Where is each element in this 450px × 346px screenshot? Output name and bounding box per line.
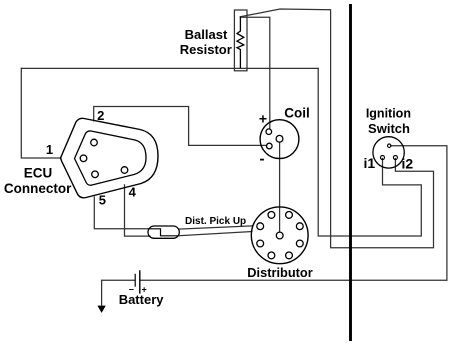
wire pickup to distributor lower <box>179 232 252 236</box>
svg-text:Ignition: Ignition <box>366 107 411 121</box>
svg-text:Resistor: Resistor <box>180 42 232 57</box>
ECU pin 1 circle <box>80 155 87 162</box>
switch i1 pin <box>381 156 385 160</box>
ECU pin 4 circle <box>121 167 128 174</box>
svg-text:Distributor: Distributor <box>247 265 312 280</box>
svg-text:i2: i2 <box>402 155 414 171</box>
pickup step line <box>150 229 178 236</box>
wire ballast top diagonal to i2 net <box>240 9 433 248</box>
svg-text:-: - <box>260 151 265 168</box>
svg-text:Ballast: Ballast <box>185 27 228 42</box>
wire switch top pin to battery plus <box>140 146 447 280</box>
ballast resistor R box <box>234 10 247 71</box>
ECU connector outer shell <box>61 118 159 197</box>
wire left vertical to pin1 <box>21 68 61 158</box>
ECU connector inner shell <box>75 131 147 185</box>
svg-text:Switch: Switch <box>368 121 410 136</box>
svg-text:2: 2 <box>97 108 104 123</box>
coil minus terminal <box>267 143 273 149</box>
resistor zigzag element <box>237 17 244 69</box>
distributor center terminal <box>276 232 283 239</box>
distributor circle <box>251 207 308 264</box>
switch top pin <box>388 144 391 147</box>
ECU pin 5 circle <box>92 171 99 178</box>
wire ballast-bottom to ECU pin1 horizontal <box>21 67 318 69</box>
battery minus plate <box>134 274 136 287</box>
dist pick up capsule <box>148 226 179 238</box>
svg-text:+: + <box>259 111 267 127</box>
svg-text:1: 1 <box>46 142 53 157</box>
ECU pin 2 circle <box>91 139 98 146</box>
svg-text:i1: i1 <box>363 155 375 171</box>
coil plus terminal <box>266 129 272 135</box>
distributor contact dots <box>257 212 303 259</box>
wire battery minus to ground <box>102 280 135 306</box>
coil circle <box>260 120 299 159</box>
svg-text:5: 5 <box>99 193 106 208</box>
svg-text:−: − <box>129 285 134 295</box>
wire right vertical from y68 down <box>318 68 421 236</box>
svg-text:ECU: ECU <box>24 165 53 180</box>
ignition switch circle <box>373 137 404 168</box>
wire ballast top to coil plus <box>240 17 269 129</box>
switch i2 pin <box>393 156 397 160</box>
wire coil center to distributor center <box>279 142 281 231</box>
heavy firewall line <box>349 4 352 341</box>
coil center terminal <box>276 135 283 142</box>
wire ECU pin2 to coil minus <box>94 107 267 146</box>
svg-text:Dist. Pick Up: Dist. Pick Up <box>185 216 246 227</box>
svg-text:Connector: Connector <box>4 181 72 196</box>
ground arrow <box>97 306 105 313</box>
svg-text:+: + <box>141 285 146 295</box>
wire ECU pin4 to pickup lower <box>125 185 151 236</box>
battery plus plate <box>139 270 141 293</box>
svg-text:4: 4 <box>129 184 137 199</box>
svg-text:Coil: Coil <box>284 105 310 120</box>
wire ECU pin5 to pickup upper <box>94 197 150 229</box>
wire pickup to distributor upper <box>179 226 252 229</box>
